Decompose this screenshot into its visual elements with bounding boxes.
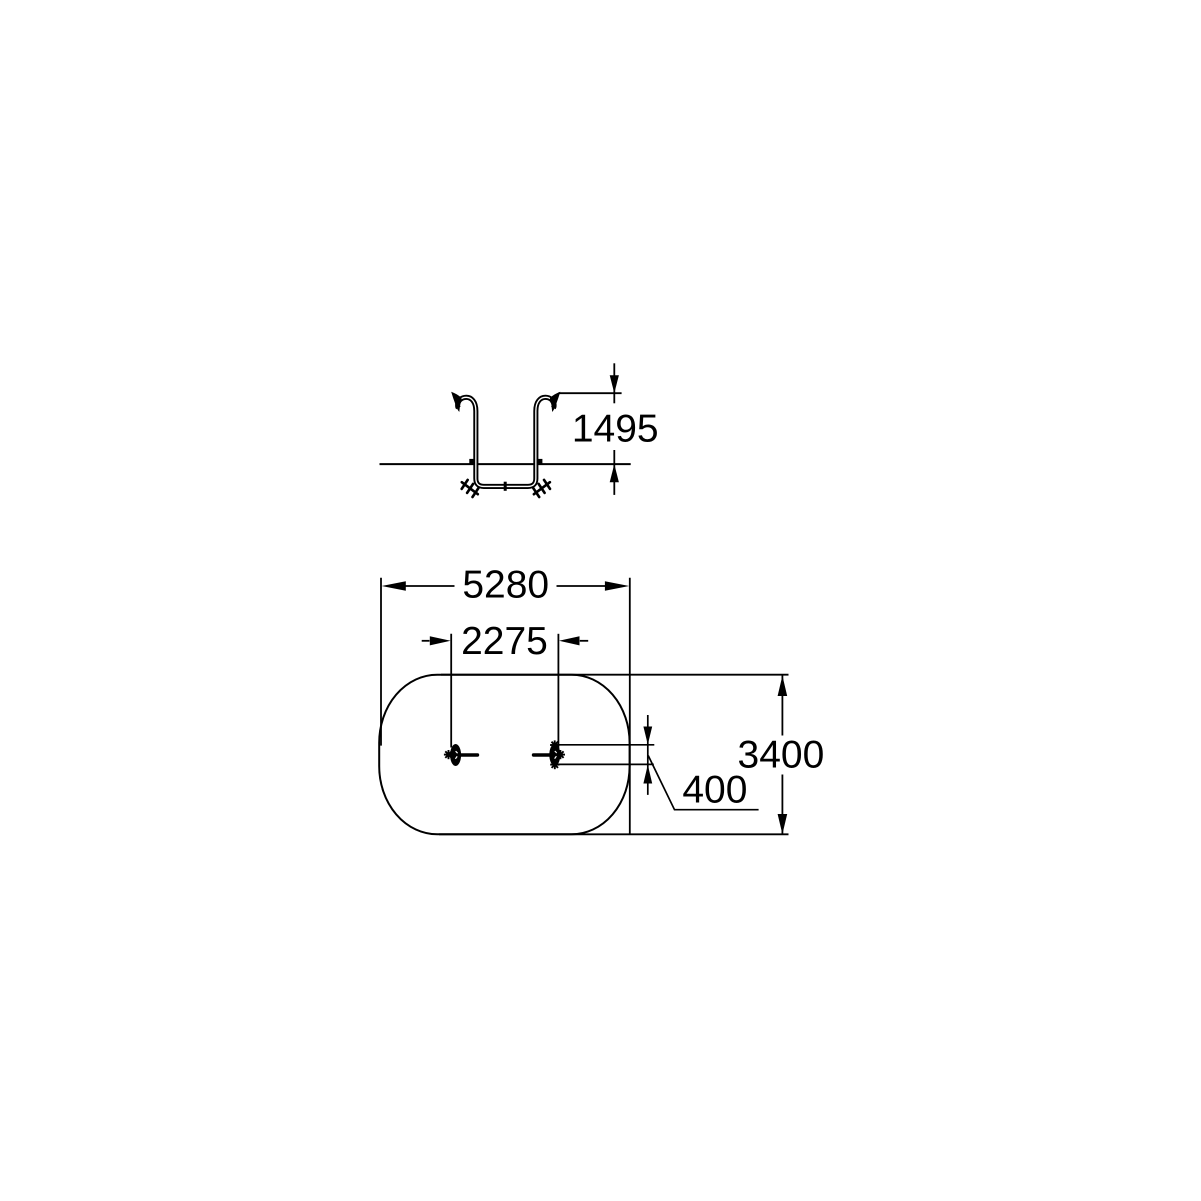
left anchor hash marks	[462, 480, 479, 497]
tube frame U-shape (side elevation), double-line tube	[458, 397, 555, 486]
400 lower extension line	[556, 763, 654, 765]
1495 top extension line	[559, 392, 622, 394]
dimension 2275	[422, 620, 589, 749]
right anchor hash marks	[533, 480, 550, 497]
ground line (side elevation)	[380, 463, 631, 465]
right marker asterisk right	[556, 750, 565, 759]
left anchor marker (ring side view)	[450, 744, 477, 766]
right hook tip (filled)	[550, 392, 560, 412]
400 upper extension line	[556, 744, 654, 746]
dimension 400	[643, 715, 758, 811]
right marker asterisk top	[550, 740, 559, 749]
dimension 3400	[738, 676, 825, 835]
bottom tangent/extension line of oval	[439, 833, 789, 835]
svg-text:2275: 2275	[461, 620, 548, 663]
left ground-level tick on tube	[469, 459, 473, 464]
top tangent/extension line of oval	[441, 674, 789, 676]
oval (plan view, rounded rect)	[379, 675, 629, 835]
right anchor marker (ring side view)	[534, 744, 561, 766]
left marker asterisk	[444, 750, 453, 759]
right ground-level tick on tube	[538, 459, 542, 464]
svg-text:5280: 5280	[462, 563, 549, 606]
center tick on bottom bar	[504, 482, 507, 491]
svg-text:3400: 3400	[738, 733, 825, 776]
left hook tip (filled)	[451, 392, 461, 412]
dimension 5280	[381, 563, 630, 834]
dimension 1495	[572, 363, 659, 495]
right marker asterisk bottom	[550, 760, 559, 769]
svg-text:1495: 1495	[572, 408, 659, 451]
